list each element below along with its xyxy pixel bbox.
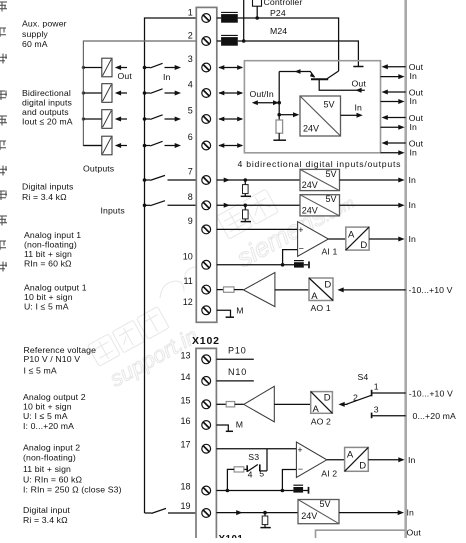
ground bar row 19 [260,527,270,529]
arrowhead In row 5 [165,117,182,122]
svg-text:A: A [347,450,354,461]
output arrow row 19 [339,507,414,517]
svg-text:17: 17 [180,440,190,450]
svg-text:11 bit + sign: 11 bit + sign [24,249,72,259]
svg-text:5V: 5V [324,100,335,110]
arrowhead In row 6 [165,143,182,148]
fuse F2 on terminal 2 (M24) [217,35,238,45]
svg-text:(non-floating): (non-floating) [23,453,76,463]
wire terminal 8 to isolator [217,203,300,208]
transistor Q1 (high-side driver) [279,69,338,79]
terminal 14 screw [202,377,211,386]
buffer amp AO2 (points left) [244,386,275,422]
svg-text:In: In [355,103,363,113]
wire terminal 9 to AI1 + [217,228,298,230]
switch In row 6 [145,141,163,146]
svg-text:Out: Out [407,528,422,538]
wire AI1 to A/D [328,238,345,240]
output driver (optocoupler) row 5 [83,110,112,129]
terminal 11 screw [202,285,211,294]
svg-text:AI 1: AI 1 [322,247,338,257]
junction / riser to controller area (M) [242,0,246,43]
svg-text:In: In [409,234,417,244]
svg-text:Digital input: Digital input [23,505,70,515]
terminal 6 screw [202,141,211,150]
svg-text:15: 15 [180,395,190,405]
resistor AO2 output [216,402,243,407]
terminal strip X102 [196,348,216,540]
watermark band middle-right [215,155,358,273]
terminal 16 screw [202,421,211,430]
terminal 2 screw [202,37,211,46]
svg-text:supply: supply [22,29,48,39]
I/O pair 2: In arrow [381,96,418,106]
svg-text:I ≤ 5 mA: I ≤ 5 mA [24,366,57,376]
M ground stub row 12 [217,305,244,317]
switch S3 branch [247,449,267,472]
svg-text:In: In [410,96,418,106]
svg-text:−: − [298,464,303,474]
bidirectional link terminal 3 to I/O block [218,65,243,70]
svg-text:Digital inputs: Digital inputs [22,182,74,192]
svg-text:S3: S3 [248,452,259,462]
wire terminal 17 to AI2 + [216,448,296,450]
svg-text:M: M [236,419,243,429]
terminal 19 screw [202,509,211,518]
svg-text:In: In [410,147,418,157]
wire base drop (Out/In node) [278,72,280,115]
I/O pair 1: In arrow [381,71,418,81]
M24 terminator bar [353,66,363,68]
A/D converter AI2 [345,447,369,471]
svg-text:Analog output 1: Analog output 1 [24,283,87,293]
switch digital input row 7 [145,175,197,180]
svg-text:X102: X102 [192,335,220,347]
svg-text:3: 3 [374,405,379,415]
svg-text:8: 8 [188,192,193,202]
svg-text:Bidirectional: Bidirectional [22,88,71,98]
svg-text:S4: S4 [358,372,369,382]
wire emitter out [319,79,365,93]
svg-text:U: RIn = 60 kΩ: U: RIn = 60 kΩ [23,475,83,485]
switch digital input row 19 [145,508,197,513]
svg-text:Ri = 3.4 kΩ: Ri = 3.4 kΩ [23,515,68,525]
svg-text:12: 12 [183,297,193,307]
label: Analog input 2 [23,443,122,495]
isolator 24V/5V row 19 [298,499,339,524]
svg-text:digital inputs: digital inputs [22,98,73,108]
svg-text:RIn = 60 kΩ: RIn = 60 kΩ [24,259,72,269]
terminal strip X101 [196,7,217,322]
AI2 output arrow [368,455,415,465]
svg-text:5V: 5V [326,194,337,204]
svg-text:and outputs: and outputs [22,107,69,117]
svg-text:Ri = 3.4 kΩ: Ri = 3.4 kΩ [22,192,67,202]
output arrow row 7 [340,175,417,185]
D/A converter AO2 [311,392,333,416]
chassis/common symbol AI1 [294,261,309,269]
terminal 7 screw [202,176,211,185]
resistor AO1 output [217,287,244,292]
label: Reference voltage [24,345,97,376]
svg-text:Analog input 2: Analog input 2 [23,443,80,453]
svg-text:0...+20 mA: 0...+20 mA [413,411,457,421]
svg-text:5: 5 [259,469,264,479]
svg-text:N10: N10 [228,367,247,377]
junction on P24 bus row 7 [143,178,147,182]
junction on P24 bus row 4 [143,91,147,95]
svg-text:24V: 24V [303,124,319,134]
op-amp AI 1 [298,222,329,257]
wire: P24 common bus for switches (terminal 1 down to row 19) [145,18,197,513]
svg-text:−: − [299,244,304,254]
terminal 13 screw [202,355,211,364]
svg-text:1: 1 [374,382,379,392]
svg-text:7: 7 [188,167,193,177]
resistor (pull) in I/O block [276,115,283,141]
output arrow row 8 [340,200,417,210]
junction on outputs bus row 5 [82,117,85,120]
svg-text:10 bit + sign: 10 bit + sign [24,292,73,302]
switch In row 4 [145,89,163,94]
chassis/common symbol AI2 [293,485,308,494]
DC/DC converter 24V/5V (U10) [300,96,341,136]
A/D converter AI1 [346,227,369,251]
op-amp AI 2 [296,442,326,478]
label In + arrow from DC/DC [341,103,363,118]
switch digital input row 8 [145,201,197,206]
svg-text:6: 6 [188,132,193,142]
svg-text:A: A [348,230,355,241]
svg-text:2: 2 [188,31,193,41]
arrowhead Out row 3 [115,65,127,70]
svg-text:Outputs: Outputs [83,164,115,174]
wire AO2 buffer to D/A [274,403,310,405]
terminal 17 screw [202,444,211,453]
M ground stub row 16 [216,419,243,431]
svg-text:X101: X101 [219,534,244,538]
svg-text:5: 5 [188,106,193,116]
terminal 9 screw [202,225,211,234]
switch S4 [347,390,406,418]
wire P24 [238,18,339,71]
svg-text:+: + [298,225,303,235]
svg-text:Analog output 2: Analog output 2 [23,392,86,402]
svg-text:M24: M24 [270,26,287,36]
pull-down resistor row 19 [262,513,268,528]
svg-text:Controller: Controller [264,0,303,7]
svg-text:(non-floating): (non-floating) [24,240,77,250]
svg-text:U: I ≤ 5 mA: U: I ≤ 5 mA [23,411,68,421]
terminal 1 screw [202,14,211,23]
svg-text:11 bit + sign: 11 bit + sign [23,464,71,474]
svg-text:-10...+10 V: -10...+10 V [409,388,453,398]
output driver (optocoupler) row 3 [83,58,112,77]
label: Bidirectional digital inputs and outputs [22,88,73,127]
pull-down resistor row 8 [243,205,249,221]
terminal 15 screw [202,400,211,409]
label: Digital inputs Ri = 3.4 kOhm [22,182,74,203]
wire M24 [238,41,359,67]
wire terminal 7 to isolator [217,178,300,183]
bidirectional link terminal 4 to I/O block [218,91,243,96]
I/O pair 3: In arrow [381,122,418,132]
I/O pair 3: Out arrow [382,113,424,123]
svg-text:5V: 5V [320,499,331,509]
terminal 3 screw [202,63,211,72]
junction controller drop on P24 [255,16,259,20]
left margin rotated figure caption (clipped) [0,2,7,272]
svg-text:In: In [407,507,415,517]
svg-text:11: 11 [183,276,192,286]
terminal 5 screw [202,115,211,124]
svg-text:AI 2: AI 2 [321,469,337,479]
svg-text:U: I ≤ 5 mA: U: I ≤ 5 mA [24,302,69,312]
junction on P24 bus row 8 [143,204,147,208]
AO1 input arrow from boundary [337,285,452,295]
D/A converter AO1 [309,278,333,302]
svg-text:In: In [163,72,171,82]
wire terminal 18 common [216,470,296,493]
svg-text:D: D [359,461,366,472]
svg-text:Out: Out [118,71,133,81]
svg-text:Out/In: Out/In [250,89,274,99]
svg-text:4 bidirectional digital inputs: 4 bidirectional digital inputs/outputs [238,159,402,169]
ground bar row 7 [241,195,251,197]
svg-text:+: + [297,445,302,455]
arrowhead Out row 6 [115,143,127,148]
terminal 18 screw [202,486,211,495]
output driver (optocoupler) row 4 [83,84,112,103]
junction on P24 bus row 3 [143,66,147,70]
switch In row 3 [145,63,163,68]
fuse F1 on terminal 1 (P24) [217,12,238,22]
svg-text:M: M [236,305,243,315]
S4 labels [353,372,379,415]
arrow into AO2 D/A [338,402,347,407]
terminal 10 screw [202,260,211,269]
svg-text:13: 13 [180,350,190,360]
node Out/In double arrow [252,100,281,105]
svg-text:D: D [360,240,367,251]
svg-text:14: 14 [180,372,190,382]
bidirectional I/O block outline [244,61,380,153]
junction at resistor top [277,113,281,117]
arrowhead In row 4 [165,91,182,96]
svg-text:4: 4 [188,80,193,90]
controller box (cut off at top) [253,0,262,18]
junction on P24 bus row 6 [143,144,147,148]
bidirectional link terminal 5 to I/O block [218,117,243,122]
svg-text:I: 0...+20 mA: I: 0...+20 mA [23,421,74,431]
svg-text:24V: 24V [302,180,318,190]
svg-text:-10...+10 V: -10...+10 V [409,285,453,295]
svg-text:AO 2: AO 2 [311,416,331,426]
wire terminal 10 reference [217,250,298,267]
wire into DC/DC [279,112,299,117]
svg-text:Aux. power: Aux. power [22,19,67,29]
I/O pair 1: Out arrow [382,62,424,72]
svg-text:Out: Out [352,79,367,89]
label: Analog input 1 [24,230,81,269]
buffer amp AO1 (points left) [243,273,275,307]
svg-text:16: 16 [180,416,190,426]
S3 labels [248,452,265,480]
svg-text:10: 10 [183,251,193,261]
terminal 4 screw [202,89,211,98]
svg-text:18: 18 [180,482,190,492]
svg-text:1: 1 [188,8,193,18]
label: Aux. power supply 60 mA [22,19,67,50]
label: Analog output 1 [24,283,87,312]
svg-text:In: In [410,122,418,132]
svg-text:A: A [313,404,320,415]
module boundary line (right) [404,0,407,538]
I/O pair 2: Out arrow [382,87,424,97]
svg-text:P10 V / N10 V: P10 V / N10 V [24,354,81,364]
svg-text:60 mA: 60 mA [22,39,48,49]
arrowhead In row 3 [165,65,182,70]
svg-text:4: 4 [248,469,253,479]
svg-text:5V: 5V [326,169,337,179]
terminal 12 screw [202,306,211,315]
ground bar in I/O block [273,139,286,141]
ground bar row 8 [241,221,251,223]
svg-text:A: A [311,291,318,302]
terminal 8 screw [202,201,211,210]
svg-text:D: D [324,280,331,291]
svg-text:2: 2 [353,392,358,402]
svg-text:Iout ≤ 20 mA: Iout ≤ 20 mA [22,117,73,127]
wire AO1 buffer to D/A [275,289,309,291]
svg-text:10 bit + sign: 10 bit + sign [23,402,72,412]
svg-text:Analog input 1: Analog input 1 [24,230,81,240]
svg-text:I: RIn = 250 Ω (close S3): I: RIn = 250 Ω (close S3) [23,485,122,495]
svg-text:Inputs: Inputs [101,206,126,216]
watermark band lower-left [88,297,203,394]
svg-text:24V: 24V [302,205,318,215]
I/O pair 4: Out arrow [382,138,424,148]
svg-text:In: In [410,71,418,81]
resistor S3 (250 Ohm) [227,467,246,491]
svg-text:In: In [409,200,417,210]
arrowhead Out row 5 [115,117,127,122]
svg-text:19: 19 [180,501,190,511]
isolator 24V/5V row 8 [300,194,340,216]
arrowhead Out row 4 [115,91,127,96]
svg-text:D: D [324,393,331,404]
label: Digital input Ri = 3.4 kOhm [23,505,70,525]
junction on outputs bus row 4 [82,91,85,94]
wire AI2 to A/D [327,459,345,461]
output driver (optocoupler) row 6 [83,136,112,155]
AI1 output arrow [369,234,416,244]
bidirectional link terminal 6 to I/O block [218,143,243,148]
pull-down resistor row 7 [243,180,249,196]
label: Analog output 2 [23,392,86,431]
svg-text:24V: 24V [301,511,317,521]
switch In row 5 [145,115,163,120]
svg-text:3: 3 [188,54,193,64]
isolator 24V/5V row 7 [300,169,340,191]
watermark fragment bottom-left of mid section [155,266,204,303]
wire: outputs supply bus (terminal 2 to output drivers) [83,41,196,146]
svg-text:In: In [409,175,417,185]
next module box (cut off at bottom) [316,530,406,539]
wire terminal 19 to isolator [216,510,298,515]
svg-text:In: In [408,455,416,465]
wire P10 reference [216,346,253,360]
svg-text:9: 9 [188,216,193,226]
svg-text:AO 1: AO 1 [311,303,331,313]
I/O pair 4: In arrow [381,147,418,157]
junction on outputs bus row 3 [82,66,85,69]
junction on P24 bus row 5 [143,117,147,121]
svg-text:P10: P10 [228,346,247,356]
svg-text:P24: P24 [270,8,286,18]
wire N10 reference [216,367,253,381]
